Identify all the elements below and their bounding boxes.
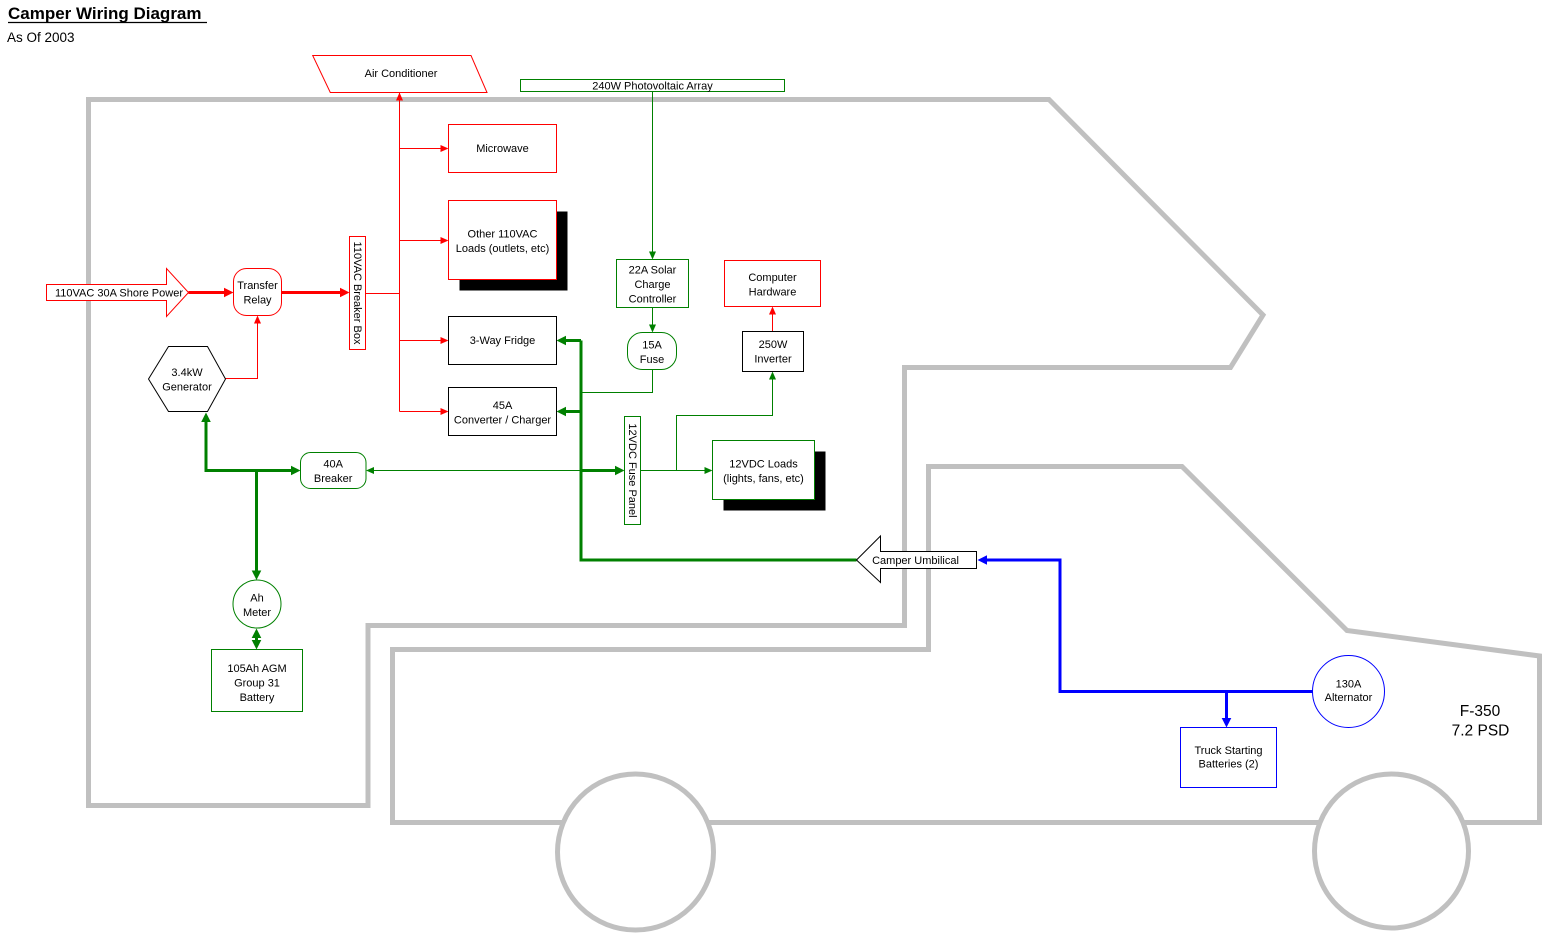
- svg-text:Batteries (2): Batteries (2): [1199, 759, 1259, 771]
- svg-text:250W: 250W: [759, 339, 788, 351]
- svg-text:12VDC Loads: 12VDC Loads: [729, 458, 798, 470]
- wire junction to Ah meter: [252, 471, 262, 581]
- svg-text:22A Solar: 22A Solar: [629, 264, 677, 276]
- svg-text:Group 31: Group 31: [234, 677, 280, 689]
- svg-text:3-Way Fridge: 3-Way Fridge: [470, 335, 536, 347]
- svg-text:Camper Wiring Diagram: Camper Wiring Diagram: [8, 4, 202, 23]
- wire red trunk: [366, 93, 441, 412]
- wire generator to relay: [226, 316, 262, 379]
- transfer relay: [234, 269, 282, 316]
- 22A solar charge controller: [617, 260, 689, 308]
- 105Ah AGM battery: [212, 650, 303, 712]
- wire alternator to camper umbilical: [978, 555, 1313, 691]
- wire fuse panel to 12VDC loads: [641, 372, 777, 475]
- wire green trunk: [557, 336, 857, 560]
- svg-text:Meter: Meter: [243, 607, 271, 619]
- computer hardware: [725, 261, 821, 307]
- svg-text:40A: 40A: [323, 458, 343, 470]
- svg-text:Camper Umbilical: Camper Umbilical: [872, 555, 959, 567]
- svg-text:Truck Starting: Truck Starting: [1194, 745, 1262, 757]
- wire alternator to truck batteries: [1222, 692, 1232, 728]
- svg-text:110VAC 30A Shore Power: 110VAC 30A Shore Power: [55, 288, 183, 300]
- 110VAC 30A shore power: [47, 269, 189, 317]
- svg-text:105Ah AGM: 105Ah AGM: [227, 663, 286, 675]
- wire relay to breaker box: [282, 288, 350, 298]
- wire 40A breaker to green trunk: [366, 467, 581, 474]
- svg-text:240W Photovoltaic Array: 240W Photovoltaic Array: [592, 80, 713, 92]
- svg-text:Loads (outlets, etc): Loads (outlets, etc): [456, 243, 550, 255]
- 12VDC loads: [713, 441, 826, 511]
- truck starting batteries: [1181, 728, 1277, 788]
- svg-text:Alternator: Alternator: [1325, 692, 1373, 704]
- svg-text:Controller: Controller: [629, 293, 677, 305]
- wire generator to 40A breaker: [201, 413, 300, 476]
- 240W photovoltaic array: [521, 80, 785, 93]
- wire Ah meter to battery double arrow: [252, 629, 262, 650]
- camper outline: [89, 100, 1264, 806]
- svg-text:Relay: Relay: [243, 295, 272, 307]
- title: [8, 4, 207, 23]
- svg-text:45A: 45A: [493, 400, 513, 412]
- svg-text:Air Conditioner: Air Conditioner: [365, 68, 438, 80]
- 130A alternator: [1313, 656, 1385, 728]
- wire fuse to green trunk: [581, 370, 653, 393]
- svg-text:Transfer: Transfer: [237, 280, 278, 292]
- wire solar controller to fuse: [649, 308, 656, 333]
- svg-text:Charge: Charge: [634, 279, 670, 291]
- svg-text:Generator: Generator: [162, 381, 212, 393]
- svg-text:Fuse: Fuse: [640, 354, 664, 366]
- svg-text:As Of 2003: As Of 2003: [7, 30, 75, 45]
- F-350 label: [1452, 703, 1510, 739]
- wire green trunk to fuse panel: [581, 466, 625, 476]
- generator 3.4kW: [149, 347, 226, 412]
- svg-text:7.2 PSD: 7.2 PSD: [1452, 722, 1510, 739]
- front wheel: [1315, 774, 1469, 928]
- air conditioner: [313, 56, 487, 93]
- svg-text:3.4kW: 3.4kW: [171, 367, 203, 379]
- svg-text:12VDC Fuse Panel: 12VDC Fuse Panel: [626, 423, 638, 517]
- svg-text:Hardware: Hardware: [749, 286, 797, 298]
- svg-text:110VAC Breaker Box: 110VAC Breaker Box: [351, 242, 363, 345]
- wire shore power to relay: [189, 288, 234, 298]
- rear wheel: [558, 774, 714, 930]
- Ah meter: [233, 580, 281, 628]
- microwave: [449, 125, 557, 173]
- 15A fuse: [628, 333, 677, 370]
- 250W inverter: [743, 332, 804, 372]
- svg-text:Ah: Ah: [250, 592, 263, 604]
- 110VAC breaker box: [350, 237, 366, 350]
- truck outline: [393, 467, 1540, 823]
- wire inverter to computer hardware: [769, 307, 776, 332]
- svg-text:15A: 15A: [642, 339, 662, 351]
- wire red trunk arrowheads: [396, 93, 449, 416]
- svg-text:Battery: Battery: [240, 692, 275, 704]
- svg-text:130A: 130A: [1336, 679, 1362, 691]
- wire PV array to solar controller: [649, 92, 656, 260]
- svg-text:(lights, fans, etc): (lights, fans, etc): [723, 473, 804, 485]
- svg-text:Other 110VAC: Other 110VAC: [468, 228, 538, 240]
- camper umbilical: [857, 536, 977, 583]
- other 110VAC loads: [449, 201, 568, 291]
- 12VDC fuse panel: [625, 417, 641, 525]
- svg-text:Breaker: Breaker: [314, 473, 353, 485]
- 40A breaker: [301, 453, 367, 489]
- svg-text:Computer: Computer: [748, 272, 797, 284]
- svg-text:Inverter: Inverter: [754, 354, 792, 366]
- 3-way fridge: [449, 317, 557, 365]
- 45A converter / charger: [449, 388, 557, 436]
- svg-text:F-350: F-350: [1460, 703, 1501, 720]
- svg-text:Microwave: Microwave: [476, 143, 529, 155]
- svg-text:Converter / Charger: Converter / Charger: [454, 414, 552, 426]
